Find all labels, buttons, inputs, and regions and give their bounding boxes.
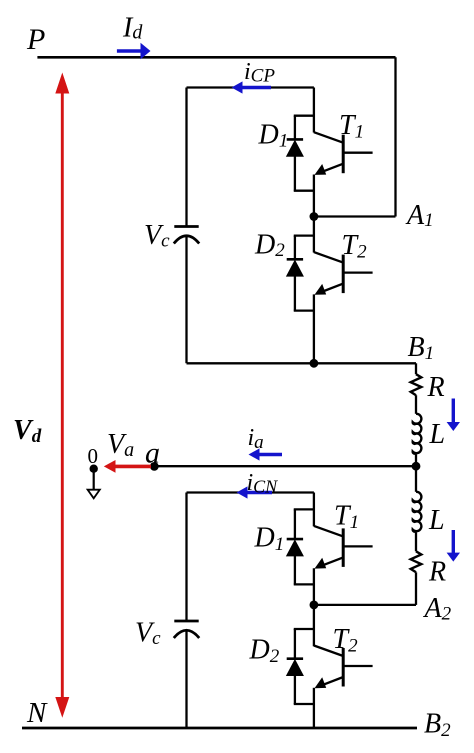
transistor T1 (lower) collector lead [314, 526, 343, 537]
wire D1 (upper) loop bottom tap [295, 190, 314, 191]
current arrow iCP (blue) [242, 86, 271, 89]
capacitor upper Vc straight plate [174, 225, 198, 228]
svg-text:B2: B2 [424, 709, 451, 742]
svg-text:Vc: Vc [144, 220, 170, 252]
svg-text:A1: A1 [405, 200, 434, 231]
reference node 0 dot [90, 465, 98, 473]
current arrow Id (blue) [117, 49, 142, 53]
svg-text:L: L [429, 419, 446, 450]
svg-text:D2: D2 [249, 634, 280, 667]
wire D2 (lower) loop bottom tap [295, 703, 314, 704]
transistor T2 (lower) base lead [343, 665, 372, 667]
svg-text:P: P [26, 23, 45, 56]
wire D2 (lower) anode-side lower lead [294, 675, 296, 704]
diode D2 (lower) triangle (points up) [287, 660, 303, 676]
node junction dot on R-L branch [412, 462, 421, 471]
resistor R (lower) zigzag [411, 551, 422, 572]
diode D1 (upper) cathode bar [287, 138, 303, 141]
wire D1 (lower) cathode-side upper lead [294, 509, 296, 539]
svg-text:iCP: iCP [244, 59, 275, 87]
voltage arrow Va (red, points left) [115, 465, 151, 469]
wire D2 (lower) loop top tap [295, 629, 314, 630]
svg-text:D1: D1 [258, 120, 289, 152]
svg-text:Vc: Vc [135, 618, 161, 650]
diode D1 (upper) triangle (points up) [287, 141, 303, 157]
svg-text:R: R [428, 556, 446, 587]
svg-text:T1: T1 [339, 110, 364, 143]
capacitor upper Vc curved plate [174, 236, 199, 244]
wire bottom rail N [22, 727, 417, 730]
wire right vertical from P rail to A1 [394, 57, 396, 216]
diode D2 (upper) cathode bar [287, 258, 303, 261]
transistor T1 (lower) base lead [343, 545, 372, 547]
svg-text:iCN: iCN [247, 470, 279, 497]
svg-text:Va: Va [107, 429, 134, 461]
wire L upper to node a [415, 454, 417, 466]
node A2 junction dot [310, 601, 319, 610]
resistor R (upper) zigzag [411, 374, 422, 395]
svg-text:R: R [427, 372, 445, 403]
node A1 junction dot [310, 212, 319, 221]
svg-text:L: L [428, 505, 445, 536]
wire main branch: iCP corner down to T1 collector [313, 88, 315, 133]
capacitor lower Vc straight plate [174, 620, 198, 623]
transistor T1 (upper) emitter lead with arrow [321, 164, 343, 172]
diode D1 (lower) cathode bar [287, 538, 303, 541]
wire D1 (upper) cathode-side upper lead [294, 116, 296, 140]
wire lower capacitor branch upper segment [185, 493, 187, 621]
wire D2 (upper) anode-side lower lead [294, 276, 296, 311]
diode D1 (lower) triangle (points up) [287, 540, 303, 556]
svg-text:a: a [145, 437, 160, 470]
transistor T2 (lower) base bar [342, 648, 345, 687]
wire lower T2 emitter down to N rail [313, 688, 315, 728]
current arrow lower R-L branch (blue, down) [452, 530, 455, 553]
transistor T1 (upper) collector lead [314, 132, 343, 143]
wire lower capacitor branch lower segment [185, 631, 187, 728]
inductor L (upper) [413, 414, 422, 454]
wire D1 (upper) anode-side lower lead [294, 156, 296, 191]
svg-text:D1: D1 [254, 522, 285, 555]
wire D2 (lower) cathode-side upper lead [294, 629, 296, 659]
wire D2 (upper) loop bottom tap [295, 310, 314, 311]
wire B1 corner down to resistor R upper [415, 363, 417, 374]
wire R lower down to A2 horizontal [415, 572, 417, 605]
svg-text:Vd: Vd [13, 415, 42, 447]
wire top rail P [37, 56, 395, 59]
wire iCP loop top (from upper capacitor branch to transistor branch) [187, 86, 314, 88]
node a dot [150, 462, 159, 471]
svg-text:T1: T1 [334, 501, 359, 533]
svg-text:B1: B1 [408, 332, 435, 364]
transistor T2 (lower) emitter lead with arrow [321, 677, 343, 685]
diode D2 (lower) cathode bar [287, 657, 303, 660]
ground symbol (stem with open arrowhead) [93, 469, 95, 490]
wire A1 horizontal [314, 215, 396, 217]
wire lower T1 emitter to A2 node and lower T2 collector [313, 568, 315, 646]
svg-text:T2: T2 [342, 230, 368, 263]
current arrow iCN (blue) [247, 491, 272, 494]
wire D1 (lower) anode-side lower lead [294, 555, 296, 584]
transistor T1 (lower) base bar [342, 528, 345, 567]
wire between L and R lower [415, 532, 417, 551]
current arrow upper R-L branch (blue, down) [452, 399, 455, 423]
diode D2 (upper) triangle (points up) [287, 261, 303, 277]
svg-text:Id: Id [122, 12, 143, 43]
wire D1 (lower) loop top tap [295, 509, 314, 510]
wire D2 (upper) cathode-side upper lead [294, 236, 296, 260]
wire node a down to inductor L lower [415, 466, 417, 492]
svg-text:ia: ia [248, 425, 264, 453]
wire main branch: iCN corner down to lower T1 collector [313, 493, 315, 527]
capacitor lower Vc curved plate [174, 630, 199, 638]
transistor T1 (lower) emitter lead with arrow [321, 557, 343, 565]
wire A2 horizontal [314, 604, 416, 606]
wire D1 (lower) loop bottom tap [295, 583, 314, 584]
wire B1 horizontal [187, 362, 417, 364]
transistor T1 (upper) base bar [342, 135, 345, 174]
transistor T1 (upper) base lead [343, 152, 372, 154]
svg-text:T2: T2 [333, 624, 359, 656]
wire D2 (upper) loop top tap [295, 236, 314, 237]
transistor T2 (upper) collector lead [314, 252, 343, 263]
wire upper capacitor branch lower segment [185, 237, 187, 364]
transistor T2 (upper) base lead [343, 271, 372, 273]
svg-text:0: 0 [88, 444, 99, 468]
wire T2 emitter down to B1 node [313, 294, 315, 363]
wire T1 emitter to A1 node and T2 collector [313, 175, 315, 253]
wire output line from node a to R-L midpoint [154, 465, 416, 467]
inductor L (lower) [413, 492, 422, 532]
svg-text:A2: A2 [423, 593, 452, 625]
wire upper capacitor branch upper segment [185, 88, 187, 227]
voltage arrow Vd (red, double-headed vertical) [61, 91, 64, 699]
wire iCN loop top [187, 491, 314, 493]
svg-text:D2: D2 [254, 230, 285, 262]
current arrow ia (blue) [259, 453, 282, 456]
transistor T2 (upper) base bar [342, 255, 345, 294]
node B1 junction dot [310, 359, 319, 368]
wire between R and L upper [415, 395, 417, 414]
wire D1 (upper) loop top tap [295, 116, 314, 117]
svg-text:N: N [26, 697, 48, 729]
transistor T2 (upper) emitter lead with arrow [321, 284, 343, 292]
transistor T2 (lower) collector lead [314, 646, 343, 657]
